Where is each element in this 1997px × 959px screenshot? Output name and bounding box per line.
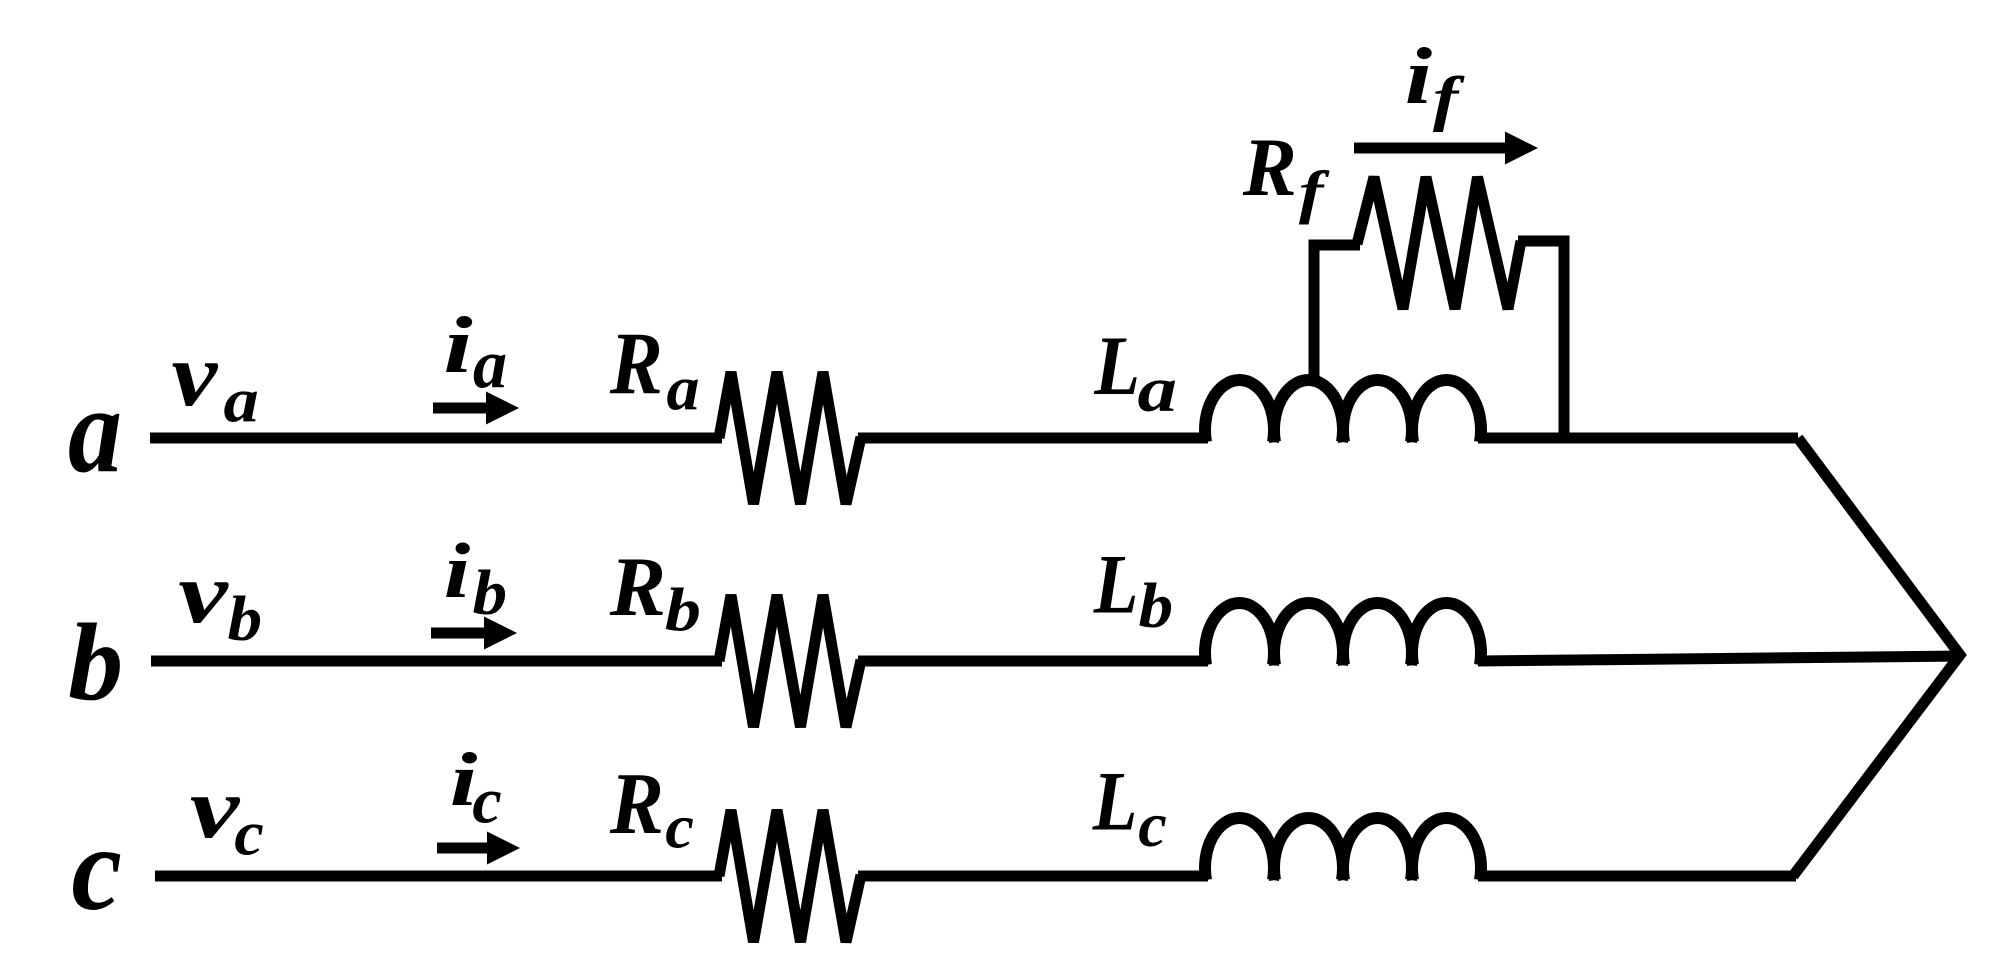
wire: phase a input lead	[150, 433, 722, 444]
svg-text:v: v	[172, 324, 220, 425]
svg-text:f: f	[1433, 64, 1465, 132]
wire: L_c to bend (phase c)	[1478, 871, 1796, 882]
inductor L_c (4 turns)	[1205, 818, 1481, 880]
resistor R_b	[719, 595, 861, 727]
wire: L_b to neutral node	[1478, 656, 1962, 661]
svg-text:c: c	[1138, 790, 1167, 860]
svg-text:b: b	[473, 558, 508, 628]
current arrow i_c	[437, 843, 491, 854]
wire: phase c input lead	[155, 871, 722, 882]
wire: R_b to L_b (phase b)	[858, 656, 1208, 667]
svg-text:i: i	[1405, 31, 1432, 121]
svg-text:R: R	[1242, 121, 1297, 213]
svg-text:L: L	[1092, 756, 1138, 849]
wire: fault tap from L_a turn to R_f	[1314, 245, 1360, 381]
svg-text:v: v	[178, 545, 229, 642]
svg-text:b: b	[665, 577, 701, 644]
svg-text:b: b	[228, 584, 263, 654]
svg-text:b: b	[68, 601, 123, 723]
resistor R_a	[719, 372, 861, 504]
wire: L_a to bend (phase a)	[1478, 433, 1798, 444]
svg-text:L: L	[1093, 320, 1140, 413]
svg-text:L: L	[1093, 539, 1139, 632]
wire: R_a to L_a (phase a)	[858, 433, 1208, 444]
resistor R_f	[1357, 177, 1521, 309]
svg-text:R: R	[609, 756, 664, 853]
svg-text:c: c	[71, 802, 122, 936]
wire: R_c to L_c (phase c)	[858, 871, 1208, 882]
svg-text:c: c	[665, 793, 694, 862]
svg-text:i: i	[444, 527, 470, 614]
svg-text:R: R	[609, 541, 666, 634]
wire: phase b input lead	[151, 656, 722, 667]
svg-text:a: a	[667, 353, 700, 424]
svg-text:a: a	[473, 325, 507, 403]
wire: R_f to phase a line (right leg)	[1518, 241, 1564, 438]
svg-text:c: c	[234, 799, 264, 869]
svg-text:i: i	[443, 300, 472, 390]
current arrow i_f	[1354, 143, 1509, 154]
svg-text:a: a	[1138, 353, 1178, 426]
resistor R_c	[719, 810, 861, 942]
inductor L_a (4 turns)	[1205, 380, 1481, 442]
svg-text:f: f	[1299, 161, 1330, 225]
svg-text:a: a	[68, 362, 122, 498]
current arrow i_b	[431, 628, 488, 639]
svg-text:c: c	[472, 765, 502, 838]
svg-text:b: b	[1139, 571, 1174, 641]
svg-text:a: a	[224, 365, 259, 436]
current arrow i_a	[433, 403, 490, 414]
inductor L_b (4 turns)	[1205, 603, 1481, 665]
wire: phase a diagonal to neutral node (miter tip with phase c)	[1793, 438, 1960, 876]
svg-text:R: R	[609, 315, 663, 413]
